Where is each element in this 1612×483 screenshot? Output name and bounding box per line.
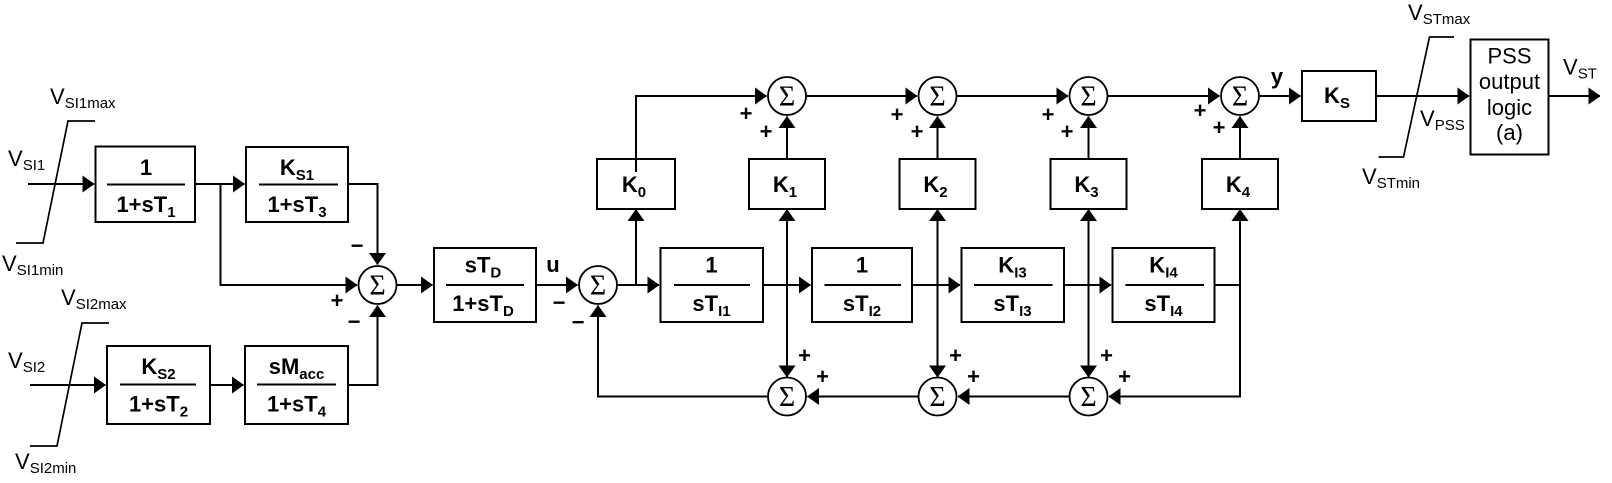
svg-text:PSS: PSS [1487,44,1531,69]
wire T3 to T4 [1108,95,1220,97]
summing junction S1 [359,266,397,304]
svg-text:+: + [949,343,962,368]
wire K0 output up and right into T1 [636,96,767,172]
summing junction T1 [768,77,806,115]
block sTD/(1+sTD) box [434,248,536,322]
svg-text:Σ: Σ [590,271,606,302]
wire sTD output u into summing junction S2 [536,284,578,286]
block K3 box [1051,159,1127,209]
block KI3/sTI3 text [974,253,1053,321]
svg-text:Σ: Σ [1232,82,1248,113]
wire S6 to S5 [808,396,919,398]
wire branch up into block K3 [1088,210,1090,286]
wire branch down into bottom summing junction S5 [786,285,788,377]
block sMacc/(1+sT4) text [257,354,336,421]
svg-text:+: + [891,102,904,127]
svg-text:Σ: Σ [929,382,945,413]
block KS1/(1+sT3) text [259,155,338,221]
wire S1 to block sTD/(1+sTD) [397,284,433,286]
svg-text:−: − [553,290,566,315]
wire T4 output y into block KS [1259,95,1301,97]
summing junction S6 [919,378,957,416]
wire output V_ST [1549,95,1601,97]
wire KS2 to block sMacc/(1+sT4) [210,384,244,386]
wire KS output through limiter into PSS output logic [1376,95,1469,97]
wire K4 output up into T4 bottom [1239,117,1241,160]
wire column4 down and left into S7 [1109,285,1240,397]
svg-text:+: + [1118,364,1131,389]
block PSS output logic text [1479,44,1540,146]
wire input V_SI1 into block 1/(1+sT1) [28,183,94,185]
wire K2 output up into T2 bottom [937,117,939,160]
svg-text:Σ: Σ [1080,382,1096,413]
wire branch down into bottom summing junction S6 [937,285,939,377]
svg-text:Σ: Σ [929,82,945,113]
svg-text:u: u [546,252,559,277]
svg-text:Σ: Σ [369,271,385,302]
block KS2/(1+sT2) text [120,354,196,421]
summing junction T3 [1070,77,1108,115]
block 1/sTI2 text [825,253,902,321]
svg-text:logic: logic [1487,95,1532,120]
svg-text:Σ: Σ [1080,82,1096,113]
svg-text:y: y [1271,64,1284,89]
wire S5 left and up into S2 bottom [598,306,768,397]
block K4 box [1202,159,1278,209]
block KI4/sTI4 box [1113,248,1215,322]
svg-text:+: + [1213,115,1226,140]
wire S2 to block 1/sTI1 [617,284,659,286]
limiter symbol V_STmax/V_STmin [1379,37,1455,157]
wire T2 to T3 [957,95,1069,97]
svg-text:Σ: Σ [779,82,795,113]
wire block 1/(1+sT1) to block KS1/(1+sT3) [195,183,245,185]
wire 1/sTI1 to 1/sTI2 [763,284,811,286]
svg-text:output: output [1479,69,1540,94]
wire S7 to S6 [958,396,1070,398]
wire branch up into block K4 [1239,210,1241,286]
summing junction T2 [919,77,957,115]
summing junction T4 [1221,77,1259,115]
svg-text:−: − [572,310,585,335]
svg-text:1: 1 [705,253,717,278]
svg-text:+: + [1100,343,1113,368]
svg-text:+: + [967,364,980,389]
wire branch down to summing junction S1 [221,184,358,285]
limiter symbol V_SI1max/V_SI1min [16,121,95,243]
block KS1/(1+sT3) box [246,147,348,222]
svg-text:+: + [1042,102,1055,127]
wire branch up into block K1 [786,210,788,286]
block K0 box [597,159,675,209]
svg-text:(a): (a) [1496,120,1523,145]
block KS2/(1+sT2) box [107,346,210,424]
wire KS1 output down into S1 top [348,184,378,265]
wire K1 output up into T1 bottom [786,117,788,160]
block 1/sTI1 text [674,253,750,321]
wire KI4/sTI4 output to column 4 corner [1215,284,1241,286]
svg-text:+: + [331,288,344,313]
block 1/sTI2 box [812,248,912,322]
svg-text:1+sT2: 1+sT2 [129,392,188,421]
wire branch up into block K0 [635,210,637,286]
wire 1/sTI2 to KI3/sTI3 [912,284,960,286]
svg-text:+: + [816,364,829,389]
block K2 box [900,159,976,209]
svg-text:+: + [1061,119,1074,144]
svg-text:+: + [760,119,773,144]
wire input V_SI2 into block KS2/(1+sT2) [30,384,106,386]
limiter symbol V_SI2max/V_SI2min [30,323,109,446]
svg-text:1+sT1: 1+sT1 [116,192,175,221]
wire KI3/sTI3 to KI4/sTI4 [1064,284,1111,286]
block 1/(1+sT1) text [107,155,185,221]
wire branch up into block K2 [937,210,939,286]
wire branch down into bottom summing junction S7 [1088,285,1090,377]
block 1/sTI1 box [661,248,764,322]
svg-text:+: + [1194,98,1207,123]
wire sMacc output up into S1 bottom [348,306,378,386]
svg-text:−: − [348,309,361,334]
summing junction S2 (u) [579,266,617,304]
svg-text:+: + [798,343,811,368]
wire K3 output up into T3 bottom [1088,117,1090,160]
summing junction S7 [1070,378,1108,416]
block sTD/(1+sTD) text [446,253,524,321]
block sMacc/(1+sT4) box [245,346,348,424]
block 1/(1+sT1) box [96,147,196,223]
block KI3/sTI3 box [962,248,1065,322]
block PSS output logic box [1471,40,1549,155]
svg-text:1+sT3: 1+sT3 [267,192,326,221]
svg-text:1: 1 [140,155,152,180]
svg-text:+: + [911,119,924,144]
summing junction S5 [768,378,806,416]
block KI4/sTI4 text [1126,253,1205,321]
svg-text:−: − [351,233,364,258]
block KS box [1302,71,1376,121]
wire T1 to T2 [806,95,917,97]
svg-text:Σ: Σ [779,382,795,413]
svg-text:1: 1 [856,253,868,278]
svg-text:+: + [740,101,753,126]
block K1 box [749,159,825,209]
